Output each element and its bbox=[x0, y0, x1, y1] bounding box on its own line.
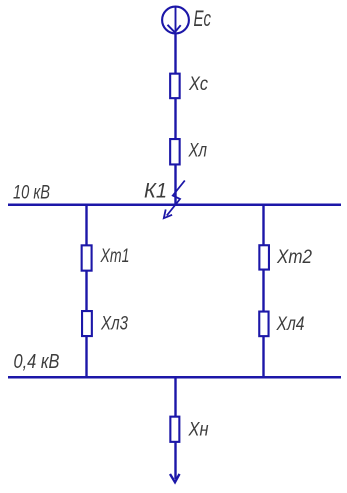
svg-text:Ес: Ес bbox=[194, 6, 212, 31]
svg-text:Хл3: Хл3 bbox=[100, 314, 128, 335]
svg-text:К1: К1 bbox=[144, 179, 167, 203]
svg-text:Хл: Хл bbox=[188, 141, 208, 162]
svg-text:Хс: Хс bbox=[188, 74, 208, 95]
svg-text:0,4 кВ: 0,4 кВ bbox=[14, 351, 60, 373]
svg-text:Хт1: Хт1 bbox=[100, 246, 130, 267]
svg-text:Хн: Хн bbox=[188, 420, 209, 441]
svg-text:10 кВ: 10 кВ bbox=[13, 182, 50, 204]
svg-text:Хл4: Хл4 bbox=[276, 314, 305, 335]
svg-text:Хт2: Хт2 bbox=[276, 247, 312, 268]
